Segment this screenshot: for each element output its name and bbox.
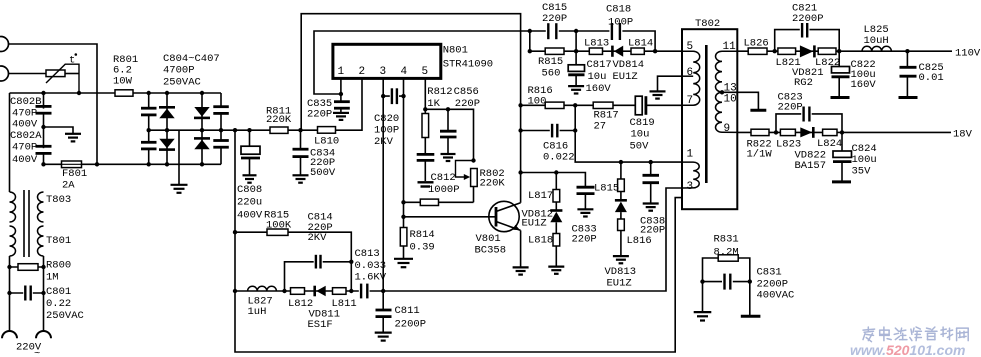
diode VD821 [792, 45, 824, 89]
resistor R815 560 [538, 48, 564, 80]
capacitor C808 electrolytic [237, 130, 263, 221]
ground (bridge mid) [171, 185, 188, 193]
svg-text:2200P: 2200P [792, 13, 824, 25]
svg-text:EU1Z: EU1Z [607, 278, 632, 290]
svg-text:220K: 220K [480, 178, 506, 190]
resistor R812 [422, 86, 453, 153]
wire J2 to thermistor [9, 73, 47, 75]
capacitor C819 electrolytic [630, 96, 683, 152]
capacitor C823 loop [776, 91, 842, 132]
svg-text:F801: F801 [62, 168, 87, 180]
svg-text:220P: 220P [778, 102, 803, 114]
wire snubber row y291 [235, 188, 682, 291]
svg-text:400V: 400V [237, 210, 263, 222]
wire outer top loop from B+ to feedback [301, 14, 520, 203]
wire C802 midpoint to ground [44, 127, 74, 133]
inductor L811 [332, 288, 357, 310]
svg-text:EU1Z: EU1Z [613, 71, 638, 83]
capacitor C802A [10, 130, 53, 166]
svg-text:C804~C407: C804~C407 [163, 53, 220, 65]
wire pin4 vertical [403, 78, 405, 227]
transformer T803/T801 line filter [10, 190, 72, 257]
svg-text:7: 7 [687, 95, 694, 107]
svg-text:2: 2 [359, 66, 366, 78]
svg-text:160V: 160V [586, 83, 612, 95]
ground (C808) [243, 175, 257, 182]
svg-text:2KV: 2KV [308, 232, 328, 244]
watermark text [850, 327, 968, 357]
svg-text:250VAC: 250VAC [46, 310, 84, 322]
wire J1 to lower bus [9, 44, 98, 164]
capacitor C838 [640, 162, 665, 236]
capacitor C801 [10, 286, 84, 323]
svg-text:1uH: 1uH [248, 306, 267, 318]
svg-text:L818: L818 [528, 234, 553, 246]
svg-text:L817: L817 [528, 190, 553, 202]
svg-text:V801: V801 [476, 233, 501, 245]
transistor V801 BC358 [475, 201, 521, 256]
svg-text:L826: L826 [744, 37, 769, 49]
inductor L821 [776, 48, 801, 69]
diode VD811 [308, 286, 341, 331]
svg-text:1.6KV: 1.6KV [355, 272, 387, 284]
wire pin1 inner top loop [314, 31, 655, 94]
svg-text:11: 11 [723, 41, 737, 53]
svg-text:5: 5 [687, 41, 694, 53]
svg-text:470P: 470P [12, 142, 37, 154]
svg-text:0.22: 0.22 [46, 298, 71, 310]
ground (C856) [441, 154, 456, 161]
inductor L818 [528, 234, 560, 266]
capacitor C824 electrolytic [832, 132, 877, 182]
inductor L825 [862, 24, 891, 51]
svg-text:27: 27 [594, 121, 607, 133]
svg-text:6: 6 [687, 67, 694, 79]
svg-text:~: ~ [34, 348, 40, 357]
wire B+ mid rail [149, 129, 301, 131]
T802 secondary winding pins 11-13-10 [716, 41, 738, 106]
svg-text:10u: 10u [631, 129, 650, 141]
wire bridge mid to ground [178, 130, 180, 184]
svg-text:C813: C813 [355, 248, 380, 260]
svg-text:C831: C831 [757, 267, 782, 279]
svg-text:C801: C801 [46, 286, 71, 298]
wire collector row [521, 173, 586, 187]
resistor R800 [10, 260, 72, 284]
svg-text:EU1Z: EU1Z [522, 218, 547, 230]
wire pin3 long vertical [382, 78, 384, 291]
svg-text:0.033: 0.033 [355, 260, 387, 272]
potentiometer R802 [456, 161, 506, 203]
svg-text:www.520101.com: www.520101.com [850, 342, 965, 357]
svg-text:2200P: 2200P [395, 319, 427, 331]
svg-text:35V: 35V [852, 165, 872, 177]
inductor L815 [594, 179, 624, 195]
wire C814 node down to row [350, 262, 352, 291]
fuse F801 [62, 161, 88, 192]
ground (L818) [548, 267, 564, 274]
resistor R831 loop [703, 233, 750, 281]
svg-text:t: t [69, 55, 75, 67]
svg-text:250VAC: 250VAC [163, 76, 201, 88]
ground (C831 left) [694, 312, 712, 320]
svg-text:T802: T802 [695, 18, 720, 30]
svg-text:220P: 220P [307, 109, 332, 121]
svg-text:1: 1 [687, 149, 694, 161]
capacitor C835 [307, 94, 350, 121]
ground (R814) [394, 259, 413, 267]
wire L810 row to pin2 [301, 78, 363, 130]
wire 110V rail [737, 50, 952, 52]
T802 core [705, 45, 708, 183]
wire pin1 stub [340, 78, 342, 94]
svg-text:9: 9 [724, 123, 731, 135]
capacitor C833 [572, 187, 597, 245]
svg-text:10: 10 [724, 94, 737, 106]
capacitor C802B [10, 93, 53, 164]
capacitor C813 [355, 248, 387, 299]
svg-text:100P: 100P [374, 125, 399, 137]
capacitor C822 electrolytic [831, 51, 877, 97]
svg-text:VD813: VD813 [605, 266, 637, 278]
svg-text:T801: T801 [46, 235, 71, 247]
ground (pin6 T802) [650, 76, 683, 98]
transformer T802 box [682, 18, 737, 209]
node dots top bus [7, 91, 204, 295]
svg-text:R815: R815 [538, 56, 563, 68]
winding left lower [10, 226, 16, 256]
resistor R814 [400, 228, 434, 259]
node dots R831/C831 [700, 279, 752, 283]
svg-text:10uH: 10uH [864, 35, 889, 47]
svg-text:10W: 10W [113, 75, 133, 87]
svg-text:C856: C856 [454, 86, 479, 98]
ground (C834) [293, 175, 309, 182]
svg-text:1K: 1K [427, 98, 440, 110]
svg-text:T803: T803 [46, 194, 71, 206]
terminal 220V right [36, 331, 51, 338]
wire C831 right to chassis [749, 282, 751, 316]
wire R813 row [404, 201, 474, 203]
svg-text:C812: C812 [431, 172, 456, 184]
node dots collector rows [518, 160, 653, 175]
svg-text:400V: 400V [12, 119, 38, 131]
wire R815(100K) row [235, 232, 351, 262]
wire left vertical lower [9, 256, 11, 332]
capacitor C821 loop [775, 3, 840, 52]
capacitor C834 [293, 130, 336, 179]
winding right lower [38, 226, 44, 256]
svg-text:5: 5 [422, 66, 429, 78]
ground (C833) [577, 209, 593, 216]
ground (L816/VD813) [613, 256, 629, 263]
svg-text:C819: C819 [630, 117, 655, 129]
svg-text:560: 560 [542, 68, 561, 80]
diode VD813 [605, 192, 637, 290]
resistor R801 [113, 54, 138, 96]
wire right vertical lower [43, 256, 45, 332]
T802 primary winding pins 1-3 [682, 149, 699, 194]
inductor L823 [776, 129, 801, 150]
ground (C835) [333, 113, 349, 120]
svg-text:4700P: 4700P [163, 65, 195, 77]
capacitor C812 [417, 154, 460, 196]
svg-text:1M: 1M [46, 272, 59, 284]
svg-text:3: 3 [687, 181, 694, 193]
resistor R811 [266, 106, 292, 134]
svg-text:400VAC: 400VAC [757, 289, 795, 301]
svg-text:L813: L813 [584, 37, 609, 49]
inductor L824 [817, 129, 842, 150]
capacitor C820 [374, 88, 404, 148]
resistor R816 [528, 85, 565, 108]
ground (C811) [375, 333, 392, 341]
T802 primary winding pins 5-6-7 [682, 41, 700, 107]
svg-text:L824: L824 [817, 138, 842, 150]
inductor L814 [628, 37, 653, 54]
capacitor C804 string col4 [212, 93, 230, 164]
ground (C802 midpoint) [65, 134, 81, 142]
svg-text:100K: 100K [266, 219, 292, 231]
winding right upper [38, 192, 44, 222]
svg-text:110V: 110V [955, 48, 981, 60]
node dots feedback [518, 29, 657, 133]
svg-text:BA157: BA157 [795, 160, 827, 172]
svg-text:2KV: 2KV [374, 136, 394, 148]
wire C831 left to ground [702, 282, 704, 312]
svg-text:BC358: BC358 [475, 245, 507, 257]
diode string col3 [194, 93, 210, 164]
resistor R817 [593, 102, 619, 132]
wire left vertical from top bus down [9, 93, 11, 192]
svg-text:500V: 500V [310, 167, 336, 179]
resistor R822 [747, 129, 773, 161]
capacitor C804 string col1 [140, 93, 158, 164]
wire 18V rail [737, 131, 951, 133]
svg-text:100P: 100P [608, 17, 633, 29]
svg-text:0.01: 0.01 [919, 72, 944, 84]
svg-text:ES1F: ES1F [308, 319, 333, 331]
svg-text:VD814: VD814 [613, 59, 645, 71]
svg-text:C802B: C802B [10, 96, 42, 108]
svg-text:160V: 160V [851, 79, 877, 91]
capacitor C816 [521, 124, 576, 164]
capacitor C825 [899, 51, 944, 97]
IC N801 [333, 44, 493, 78]
inductor L822 [815, 48, 840, 69]
svg-text:R831: R831 [714, 233, 739, 245]
capacitor C831 [703, 267, 795, 302]
wire R816 row [521, 104, 636, 106]
svg-text:220P: 220P [455, 98, 480, 110]
wire thermistor to top bus [65, 73, 79, 75]
svg-text:2A: 2A [62, 180, 75, 192]
svg-text:3: 3 [380, 66, 387, 78]
svg-text:L811: L811 [332, 298, 357, 310]
node dots 18V rail [774, 130, 844, 134]
svg-text:L815: L815 [594, 183, 619, 195]
wire top bus [10, 92, 222, 94]
svg-text:C808: C808 [237, 184, 262, 196]
wire L815 chain [620, 162, 622, 179]
inductor L816 [618, 219, 652, 255]
winding left upper [10, 192, 16, 222]
svg-text:220P: 220P [542, 13, 567, 25]
svg-text:18V: 18V [953, 129, 973, 141]
svg-text:L816: L816 [627, 235, 652, 247]
diode string col2 (VD top) [159, 93, 175, 164]
svg-text:8.2M: 8.2M [714, 246, 739, 258]
wire C817 node vertical [575, 31, 577, 65]
svg-text:R814: R814 [410, 229, 435, 241]
svg-text:220K: 220K [266, 114, 292, 126]
svg-text:220u: 220u [237, 197, 262, 209]
ground (C838) [643, 204, 659, 211]
wire B+ vertical down to snubber row and bottom return [235, 130, 682, 352]
svg-text:R800: R800 [46, 260, 71, 272]
svg-text:220P: 220P [572, 234, 597, 246]
wire base row to V801 [404, 216, 496, 218]
svg-text:C811: C811 [395, 305, 420, 317]
svg-text:STR41090: STR41090 [443, 58, 493, 70]
wire L817 chain [555, 173, 557, 190]
ground (C817) [568, 86, 584, 93]
wire C814 loop [285, 262, 352, 291]
ground (V801 emitter) [513, 267, 529, 274]
diode VD822 [795, 127, 827, 172]
inductor L812 [288, 288, 313, 310]
capacitor C856 [440, 86, 480, 153]
wire R815-560 branch [530, 31, 655, 51]
node dots 110V rail [773, 49, 910, 53]
inductor L810 [314, 127, 339, 148]
inductor L827 [248, 286, 277, 318]
wire tap 13/10 to chassis [720, 90, 767, 110]
svg-text:R812: R812 [427, 86, 452, 98]
node dots snubber row [233, 230, 386, 293]
svg-text:0.022: 0.022 [543, 151, 575, 163]
chassis bar (C831 right) [741, 315, 761, 318]
svg-text:C817: C817 [587, 59, 612, 71]
svg-text:400V: 400V [12, 154, 38, 166]
capacitor C811 [376, 291, 427, 332]
core lines [23, 190, 25, 257]
svg-text:C818: C818 [606, 4, 631, 16]
svg-text:220P: 220P [640, 224, 665, 236]
svg-text:50V: 50V [630, 141, 650, 153]
svg-text:10u: 10u [588, 71, 607, 83]
svg-text:1000P: 1000P [428, 184, 460, 196]
thermistor RT (t deg) [46, 53, 79, 93]
inductor L817 [528, 190, 560, 203]
wire V801 emitter to ground [520, 230, 522, 266]
svg-text:L814: L814 [628, 37, 653, 49]
label 220V [16, 342, 42, 357]
svg-text:0.39: 0.39 [410, 242, 435, 254]
resistor R815 100K [264, 210, 292, 236]
svg-text:L810: L810 [314, 136, 339, 148]
svg-text:1/1W: 1/1W [747, 149, 773, 161]
node dots B+ rail [147, 128, 303, 132]
diode VD814 [612, 46, 644, 83]
capacitor C815 (on inner top line) [542, 2, 567, 40]
svg-text:100u: 100u [852, 154, 877, 166]
capacitor C814 [308, 212, 333, 270]
wire pin5 net [424, 78, 426, 109]
T802 secondary winding pins 10-9 [716, 92, 738, 135]
svg-text:C802A: C802A [10, 130, 42, 142]
terminal J1 (degauss plug top) [0, 37, 9, 52]
terminal 220V left [2, 331, 17, 338]
inductor L826 [744, 37, 769, 54]
svg-text:N801: N801 [443, 44, 468, 56]
terminal J2 (degauss plug bottom) [0, 66, 9, 81]
svg-text:100: 100 [528, 95, 547, 107]
inductor L813 [584, 37, 609, 54]
ground (C812) [418, 182, 434, 186]
wire L814 node to pin5 T802 [655, 50, 682, 52]
svg-text:1: 1 [338, 66, 345, 78]
capacitor C818 (on inner top line) [606, 4, 633, 41]
diode VD812 [522, 202, 563, 234]
svg-text:C820: C820 [374, 113, 399, 125]
wire C816 node down and over to pin1 [575, 105, 682, 162]
resistor R813 [420, 199, 438, 205]
node dots IC nets [339, 92, 476, 219]
wire lower bus [44, 163, 222, 165]
capacitor C817 electrolytic [568, 59, 612, 95]
svg-text:RG2: RG2 [794, 77, 813, 89]
label C804~C407 bank [163, 53, 220, 88]
svg-text:4: 4 [401, 66, 408, 78]
